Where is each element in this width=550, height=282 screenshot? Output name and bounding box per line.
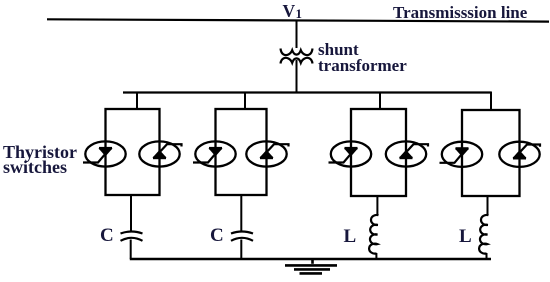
- wire: branch 4 to inductor L2: [487, 196, 489, 215]
- thyristor SCR1b (right, branch 1): [139, 141, 181, 166]
- thyristor SCR2b (right, branch 2): [246, 141, 288, 166]
- thyristor valve enclosure branch 2: [216, 109, 267, 195]
- wire: transmission line: [47, 19, 549, 21]
- capacitor C2: [231, 232, 253, 241]
- transformer T1 (shunt transformer) lower winding: [281, 58, 313, 64]
- wire: bottom bus: [130, 258, 491, 261]
- label "shunt transformer": [318, 42, 407, 74]
- wire: capacitor C1 to bottom bus: [130, 240, 132, 260]
- wire: bus drop to branch 4: [490, 92, 492, 111]
- wire: inductor L1 to bottom bus: [375, 253, 377, 259]
- thyristor SCR3a (left, branch 3): [329, 141, 372, 166]
- wire: V1 node to shunt transformer: [296, 21, 298, 48]
- label C (branch 1): [100, 225, 114, 247]
- thyristor SCR4b (right, branch 4): [499, 142, 540, 167]
- wire: bus drop to branch 2: [244, 92, 246, 110]
- thyristor SCR2a (left, branch 2): [193, 141, 236, 166]
- thyristor SCR3b (right, branch 3): [386, 141, 428, 166]
- thyristor SCR4a (left, branch 4): [440, 142, 483, 167]
- wire: branch 1 to capacitor C1: [130, 195, 132, 232]
- inductor L2: [479, 215, 488, 254]
- thyristor valve enclosure branch 4: [462, 110, 520, 196]
- wire: capacitor C2 to bottom bus: [240, 240, 242, 260]
- wire: transformer to top bus: [296, 60, 298, 93]
- transformer T1 (shunt transformer) upper winding: [281, 49, 313, 56]
- wire: branch 2 to capacitor C2: [240, 195, 242, 232]
- node V1 label: [283, 1, 296, 22]
- wire: bus drop to branch 1: [136, 92, 138, 110]
- label "Thyristor switches": [3, 145, 77, 175]
- wire: bus drop to branch 3: [379, 92, 381, 110]
- thyristor valve enclosure branch 1: [106, 109, 160, 195]
- thyristor valve enclosure branch 3: [351, 109, 406, 196]
- wire: top bus: [123, 91, 491, 93]
- wire: inductor L2 to bottom bus: [486, 253, 488, 259]
- label "Transmisssion line": [393, 3, 527, 23]
- capacitor C1: [121, 232, 143, 241]
- label L (branch 3): [344, 226, 357, 248]
- inductor L1: [369, 215, 378, 254]
- label L (branch 4): [459, 226, 472, 248]
- thyristor SCR1a (left, branch 1): [83, 141, 126, 166]
- wire: branch 3 to inductor L1: [376, 196, 378, 215]
- ground: [285, 259, 337, 273]
- label C (branch 2): [210, 225, 224, 247]
